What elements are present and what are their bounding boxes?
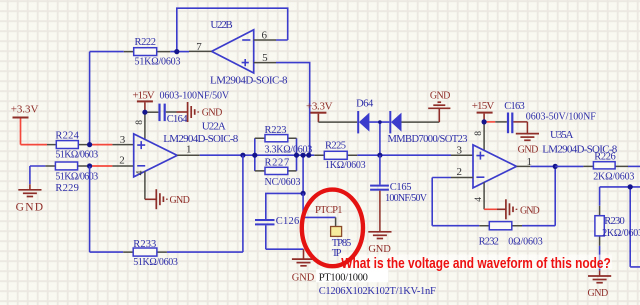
junction: U35A output node: [553, 164, 558, 169]
svg-text:R225: R225: [325, 141, 346, 152]
svg-text:What is the voltage and wavefo: What is the voltage and waveform of this…: [341, 255, 611, 272]
wire: U22B feedback loop pin6 to output: [177, 8, 288, 51]
svg-text:LM2904D-SOIC-8: LM2904D-SOIC-8: [163, 133, 239, 145]
wire: +15V to C163 (red) and U35A pin8: [484, 122, 507, 150]
svg-text:R227: R227: [265, 158, 290, 169]
junction: node at R224/R222: [87, 142, 92, 147]
wire: feedback from output junction: [522, 166, 555, 225]
annotation: red circle around test point: [302, 190, 363, 267]
resistor R227: [255, 158, 301, 188]
label: PT100/1000 (on white box): [316, 269, 388, 283]
svg-text:+15V: +15V: [132, 89, 154, 101]
op-amp U22B: [177, 19, 288, 87]
junction: test point tap: [301, 153, 306, 158]
svg-text:100NF/50V: 100NF/50V: [385, 193, 428, 204]
wire: R233 feedback loop to pin2: [90, 155, 243, 252]
svg-text:3: 3: [120, 134, 126, 146]
svg-text:R229: R229: [55, 183, 79, 194]
wire: +3.3V to R224 (red net): [21, 119, 48, 145]
junction: U22B pin5 tap on bus: [306, 153, 311, 158]
svg-text:R224: R224: [55, 130, 79, 141]
wire: C126 bottom to ground: [266, 225, 304, 249]
svg-text:3: 3: [457, 145, 463, 157]
ground GND (above D64, inverted): [428, 90, 450, 122]
svg-text:51KΩ/0603: 51KΩ/0603: [55, 149, 98, 160]
svg-text:1KΩ/0603: 1KΩ/0603: [325, 160, 366, 171]
annotation: red question text: [340, 255, 612, 272]
wire: lower right net to edge: [600, 187, 640, 267]
ground GND (U35A pin4, sideways): [506, 199, 540, 219]
svg-text:U35A: U35A: [550, 129, 574, 141]
svg-text:PTCP1: PTCP1: [315, 205, 343, 216]
svg-text:R223: R223: [265, 125, 287, 136]
resistor R222: [124, 37, 181, 68]
junction: node at R229/R233: [87, 163, 92, 168]
svg-text:6: 6: [262, 30, 268, 42]
svg-text:2: 2: [119, 155, 125, 167]
power +15V (U35A): [472, 100, 495, 122]
junction: left bracket on bus: [252, 153, 257, 158]
capacitor C164: [158, 90, 229, 125]
junction: lower right node: [628, 184, 633, 189]
junction: R233 tap on output bus: [240, 153, 245, 158]
svg-text:1: 1: [186, 143, 192, 155]
svg-text:U22B: U22B: [210, 19, 232, 31]
resistor R225: [314, 141, 365, 172]
svg-text:LM2904D-SOIC-8: LM2904D-SOIC-8: [210, 74, 288, 86]
op-amp U35A: [451, 129, 618, 202]
svg-text:7: 7: [196, 41, 202, 53]
svg-text:C1206X102K102T/1KV-1nF: C1206X102K102T/1KV-1nF: [319, 286, 436, 297]
junction: right bracket on bus: [294, 153, 299, 158]
svg-text:0603-100NF/50V: 0603-100NF/50V: [160, 90, 230, 101]
svg-text:51KΩ/0603: 51KΩ/0603: [55, 172, 98, 183]
wire: U35A pin2 feedback leg: [432, 178, 479, 226]
svg-text:4: 4: [136, 170, 146, 175]
svg-text:C163: C163: [504, 101, 525, 112]
capacitor C163: [504, 101, 596, 133]
power +15V (U22A): [132, 89, 154, 112]
diode D64 (dual, MMBD7000/SOT23): [356, 98, 467, 144]
ground GND (C163): [513, 122, 539, 155]
svg-text:GND: GND: [202, 108, 223, 119]
svg-text:8: 8: [135, 120, 145, 125]
test point PTCP1 / TP85: [315, 205, 351, 259]
op-amp U22A: [119, 120, 239, 177]
junction: U22B output node: [174, 49, 179, 54]
svg-text:4: 4: [474, 197, 484, 202]
svg-text:GND: GND: [518, 144, 539, 155]
ground GND (C164, sideways): [166, 102, 223, 122]
wire: +15V node to U22A pin8: [145, 112, 159, 140]
wire: U35A pin4 to ground (red): [484, 182, 506, 209]
svg-text:8: 8: [474, 131, 484, 136]
junction: +15V/C163/pin8: [482, 119, 487, 124]
svg-text:+3.3V: +3.3V: [306, 100, 333, 112]
svg-text:R232: R232: [479, 237, 499, 248]
svg-text:NC/0603: NC/0603: [265, 177, 301, 188]
svg-text:+15V: +15V: [472, 100, 495, 112]
svg-text:C164: C164: [167, 114, 189, 125]
capacitor C126: [255, 216, 299, 227]
wire: parallel bracket R223/R227: [255, 138, 297, 171]
power +3.3V (left): [11, 104, 39, 119]
svg-text:+3.3V: +3.3V: [11, 104, 39, 116]
ground GND (C165): [368, 191, 391, 255]
wire: R222 to U22A pin3 node: [90, 52, 177, 145]
resistor R226: [555, 151, 640, 182]
ground GND (below R229): [16, 184, 43, 213]
junction: clamp node on bus: [377, 153, 382, 158]
capacitor C165: [370, 155, 428, 204]
svg-text:D64: D64: [356, 98, 374, 109]
svg-text:5: 5: [262, 52, 268, 64]
wire: node to C126: [266, 193, 303, 219]
wire: U22A output bus to R225 and U35A pin3: [200, 154, 473, 156]
svg-text:0Ω/0603: 0Ω/0603: [508, 237, 542, 248]
power +3.3V (D64 clamp): [306, 100, 333, 122]
svg-text:GND: GND: [292, 273, 315, 284]
svg-text:C126: C126: [276, 216, 300, 227]
resistor R229: [45, 162, 98, 194]
svg-text:R230: R230: [604, 216, 625, 227]
wire: TP node to test point pad: [303, 193, 336, 226]
svg-text:GND: GND: [170, 195, 190, 206]
svg-text:GND: GND: [16, 202, 43, 214]
svg-text:51KΩ/0603: 51KΩ/0603: [133, 257, 178, 268]
wire: R224 to U22A pin3 (red segment): [90, 144, 134, 146]
svg-text:GND: GND: [588, 288, 609, 299]
svg-text:GND: GND: [368, 244, 391, 255]
wire: D64 clamp rail: [318, 121, 439, 123]
ground GND (U22A pin4, sideways): [156, 189, 190, 209]
svg-text:R226: R226: [594, 151, 616, 162]
junction: C126/TP node: [301, 191, 306, 196]
resistor R232: [479, 222, 543, 248]
svg-text:2KΩ/0603: 2KΩ/0603: [602, 228, 640, 239]
svg-text:MMBD7000/SOT23: MMBD7000/SOT23: [388, 134, 468, 145]
svg-text:51KΩ/0603: 51KΩ/0603: [135, 56, 181, 67]
junction: clamp node top: [378, 120, 382, 124]
svg-text:GND: GND: [430, 90, 451, 101]
resistor R230: [595, 187, 640, 246]
wire: R229 left to ground: [30, 166, 46, 184]
svg-text:R222: R222: [135, 37, 157, 48]
svg-text:R233: R233: [133, 239, 156, 250]
resistor R223: [255, 125, 312, 156]
svg-text:U22A: U22A: [202, 121, 226, 133]
svg-text:GND: GND: [520, 206, 540, 217]
ground GND (R230): [588, 276, 612, 299]
junction: +15V/C164/pin8: [142, 110, 147, 115]
wire: bus down to test point node: [302, 155, 304, 193]
ground GND (C126): [292, 249, 315, 283]
svg-text:0603-50V/100NF: 0603-50V/100NF: [526, 111, 596, 122]
wire: U22B pin5 sense line down to output bus: [276, 63, 310, 156]
resistor R233: [123, 239, 178, 268]
svg-text:2: 2: [457, 166, 463, 178]
wire: R229 to U22A pin2 (red segment): [90, 165, 134, 167]
resistor R224: [47, 130, 98, 160]
wire: clamp node down to bus: [379, 122, 381, 155]
svg-text:PT100/1000: PT100/1000: [319, 273, 368, 284]
wire: R230 to ground: [599, 246, 601, 276]
svg-text:C165: C165: [390, 182, 412, 193]
wire: U22A pin4 to ground: [145, 171, 156, 199]
svg-text:2KΩ/0603: 2KΩ/0603: [593, 171, 634, 182]
